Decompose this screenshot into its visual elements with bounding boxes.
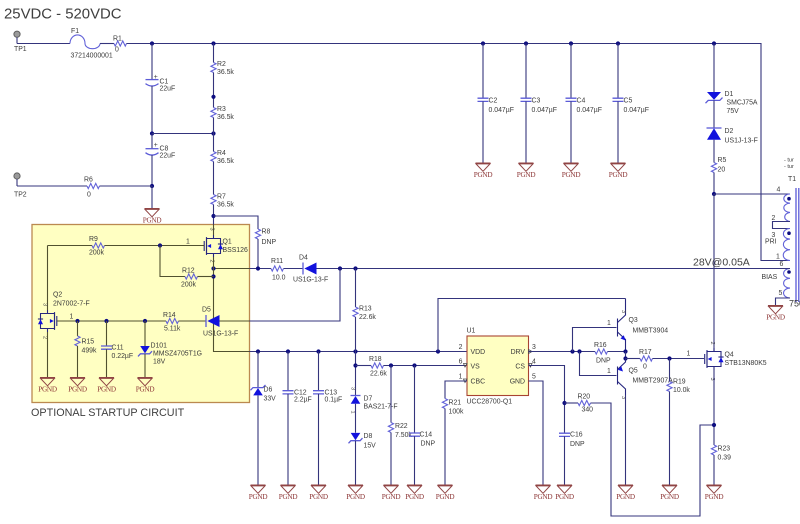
wire R5 to primary node <box>713 173 715 195</box>
capacitor C12 <box>283 352 312 486</box>
capacitor C2 <box>478 41 514 163</box>
resistor R11 <box>271 258 286 282</box>
svg-text:36.5k: 36.5k <box>217 69 234 76</box>
resistor R5 <box>711 157 726 174</box>
wire CS pin <box>529 366 565 434</box>
svg-text:0.047µF: 0.047µF <box>532 107 557 114</box>
svg-text:22.6k: 22.6k <box>359 314 376 321</box>
svg-text:UCC28700-Q1: UCC28700-Q1 <box>467 399 513 406</box>
svg-text:100k: 100k <box>449 409 464 416</box>
svg-text:20: 20 <box>718 167 726 174</box>
svg-text:BSS126: BSS126 <box>223 247 248 254</box>
wire bias line <box>250 268 272 270</box>
wire startup VDD feed <box>250 351 468 353</box>
svg-text:Q3: Q3 <box>629 317 638 324</box>
svg-text:37214000001: 37214000001 <box>71 53 113 60</box>
resistor R9 <box>48 236 205 257</box>
svg-text:R21: R21 <box>449 400 462 407</box>
ground PGND under GND pin <box>534 485 553 501</box>
wire R7 to divider node <box>213 205 215 225</box>
svg-text:TP2: TP2 <box>14 192 27 199</box>
ground PGND under C2 <box>474 163 493 179</box>
node R9-R12 tap <box>158 243 162 247</box>
node D5 return <box>338 266 342 270</box>
ground PGND under C12 <box>279 485 298 501</box>
svg-text:5.11k: 5.11k <box>164 326 181 333</box>
wire Q4 source <box>713 370 715 445</box>
ground PGND under R19 <box>660 485 679 501</box>
svg-text:R9: R9 <box>89 236 98 243</box>
svg-text:CBC: CBC <box>471 379 486 386</box>
node C13 top <box>316 349 320 353</box>
ground PGND under C14 <box>405 485 424 501</box>
svg-text:D101: D101 <box>151 343 168 350</box>
wire R8 to bias line <box>257 239 259 269</box>
diode D4 <box>293 255 328 284</box>
capacitor C13 <box>313 352 342 486</box>
svg-text:R2: R2 <box>217 61 226 68</box>
svg-text:3: 3 <box>42 303 48 306</box>
node R13 top <box>353 266 357 270</box>
node D101 top <box>143 319 147 323</box>
svg-text:C12: C12 <box>294 390 307 397</box>
svg-text:Q1: Q1 <box>223 239 232 246</box>
wire Q3 base <box>573 328 617 352</box>
wire tap to R8 <box>214 216 259 229</box>
wire D2-R5 <box>713 140 715 163</box>
wire TP2 to R6 <box>17 185 87 187</box>
ground PGND under R22 <box>382 485 401 501</box>
svg-text:C11: C11 <box>112 345 124 352</box>
node R12 right <box>211 274 215 278</box>
svg-text:Q4: Q4 <box>725 352 734 359</box>
diode D7 <box>350 387 398 433</box>
svg-text:R7: R7 <box>217 194 226 201</box>
resistor R23 <box>711 445 731 485</box>
wire node to T1 pin 4 <box>714 193 790 195</box>
node rail-C1 <box>150 41 154 45</box>
wire rail to D1 <box>713 44 715 93</box>
resistor R19 <box>667 359 691 486</box>
svg-text:2.2µF: 2.2µF <box>294 397 312 404</box>
node R2-R3 <box>211 95 215 99</box>
svg-text:R15: R15 <box>82 339 95 346</box>
wire C8 to TP2 node <box>151 155 153 186</box>
node VDD-Q3 feed <box>436 349 440 353</box>
wire GND pin <box>529 381 544 485</box>
svg-text:25VDC - 520VDC: 25VDC - 520VDC <box>4 7 122 23</box>
wire mid node to C8 <box>151 134 153 149</box>
node R3-R4 <box>211 131 215 135</box>
svg-text:R14: R14 <box>163 312 176 319</box>
node Q3 emitter <box>623 349 627 353</box>
svg-text:R17: R17 <box>639 349 652 356</box>
wire R4-R7 <box>213 162 215 195</box>
wire F1 to R1 <box>100 43 114 45</box>
svg-text:5: 5 <box>532 374 536 381</box>
svg-text:R1: R1 <box>113 36 122 43</box>
svg-text:0.1µF: 0.1µF <box>325 397 343 404</box>
svg-text:C14: C14 <box>420 432 433 439</box>
ground PGND under Q2 <box>38 378 57 394</box>
node Q4 source-R20 <box>712 423 716 427</box>
node R6 junction <box>150 184 154 188</box>
ground PGND under R15 <box>68 378 87 394</box>
svg-text:2N7002-7-F: 2N7002-7-F <box>53 301 90 308</box>
svg-text:36.5k: 36.5k <box>217 202 234 209</box>
svg-text:R4: R4 <box>217 150 226 157</box>
op-amp U1 UCC28700-Q1 <box>459 328 536 406</box>
node rail-R2 <box>211 41 215 45</box>
svg-text:US1G-13-F: US1G-13-F <box>293 277 328 284</box>
svg-text:- tur: - tur <box>784 158 794 164</box>
resistor R17 <box>626 349 705 371</box>
svg-text:R8: R8 <box>262 229 271 236</box>
resistor R18 <box>356 356 388 378</box>
diode D2 <box>707 128 758 145</box>
resistor R2 <box>211 61 235 76</box>
capacitor C16 <box>559 432 585 486</box>
svg-text:R20: R20 <box>578 394 591 401</box>
svg-text:U1: U1 <box>467 328 476 335</box>
wire D1-D2 <box>713 100 715 128</box>
resistor R7 <box>211 194 235 209</box>
node R17 left <box>623 356 627 360</box>
ground PGND under D101 <box>136 378 155 394</box>
ground PGND under R21 <box>436 485 455 501</box>
resistor R12 <box>160 246 214 289</box>
svg-text:0.047µF: 0.047µF <box>624 107 649 114</box>
wire VS line <box>384 365 468 367</box>
zener D101 <box>138 321 202 378</box>
svg-text:F1: F1 <box>71 28 79 35</box>
node primary top <box>712 192 716 196</box>
svg-text:D7: D7 <box>364 396 373 403</box>
resistor R16 <box>594 342 626 365</box>
svg-text:SMCJ75A: SMCJ75A <box>727 100 758 107</box>
svg-text:200k: 200k <box>89 250 104 257</box>
svg-text:- tur: - tur <box>784 164 794 170</box>
test point TP1 <box>14 31 27 53</box>
svg-text:MMBT3904: MMBT3904 <box>633 328 669 335</box>
svg-text:D2: D2 <box>725 128 734 135</box>
svg-text:0.39: 0.39 <box>718 455 732 462</box>
wire to PGND <box>151 186 153 209</box>
svg-text:28V@0.05A: 28V@0.05A <box>693 257 750 269</box>
svg-text:PRI: PRI <box>765 239 777 246</box>
resistor R20 <box>565 394 715 517</box>
wire mid node link <box>152 133 214 135</box>
ground PGND under C8 <box>143 209 162 225</box>
node R15 top <box>75 319 79 323</box>
svg-text:36.5k: 36.5k <box>217 158 234 165</box>
ground PGND under C16 <box>555 485 574 501</box>
resistor R4 <box>211 150 235 165</box>
transistor Q3 <box>607 299 668 352</box>
resistor R21 <box>442 381 467 485</box>
svg-text:0: 0 <box>643 364 647 371</box>
node divider tap <box>211 214 215 218</box>
node R17-R19 <box>667 356 671 360</box>
wire Q1 source vertical chain <box>214 269 250 352</box>
mosfet Q1 <box>186 225 248 269</box>
ground PGND under C11 <box>97 378 116 394</box>
svg-text:R3: R3 <box>217 106 226 113</box>
svg-text:C4: C4 <box>577 98 586 105</box>
svg-text:D1: D1 <box>725 91 734 98</box>
resistor R13 <box>353 269 377 396</box>
svg-text:0: 0 <box>115 47 119 54</box>
capacitor C14 <box>409 366 435 486</box>
svg-text:22uF: 22uF <box>160 86 176 93</box>
svg-text:22uF: 22uF <box>160 153 176 160</box>
svg-text:DRV: DRV <box>511 349 526 356</box>
ground PGND under D6 <box>249 485 268 501</box>
svg-text:2: 2 <box>459 344 463 351</box>
TVS diode D1 <box>706 91 758 115</box>
svg-text:DNP: DNP <box>596 358 611 365</box>
svg-text:R23: R23 <box>718 446 731 453</box>
svg-text:D5: D5 <box>202 307 211 314</box>
wire Q5 collector <box>625 395 627 485</box>
svg-text:18V: 18V <box>153 359 166 366</box>
svg-text:D6: D6 <box>264 387 273 394</box>
ground PGND under C5 <box>609 163 628 179</box>
mosfet Q4 <box>687 342 767 381</box>
svg-text:5: 5 <box>779 290 783 297</box>
svg-text:1: 1 <box>186 239 190 246</box>
svg-text:0.22µF: 0.22µF <box>112 353 134 360</box>
svg-text:DNP: DNP <box>421 441 436 448</box>
svg-text:US1J-13-F: US1J-13-F <box>725 138 758 145</box>
svg-text:MMSZ4705T1G: MMSZ4705T1G <box>153 351 202 358</box>
resistor R3 <box>211 106 235 121</box>
wire Q3 collector to VDD <box>438 299 626 352</box>
svg-text:R5: R5 <box>718 157 727 164</box>
ground PGND under D8 <box>346 485 365 501</box>
svg-text:6: 6 <box>780 261 784 268</box>
test point TP2 <box>14 173 27 199</box>
ground PGND under Q5 <box>616 485 635 501</box>
svg-text:D4: D4 <box>299 255 308 262</box>
node VDD-R13 <box>353 349 357 353</box>
svg-text:R18: R18 <box>369 356 382 363</box>
node Q1 source <box>211 266 215 270</box>
svg-text:0: 0 <box>87 192 91 199</box>
node rail-clamp <box>712 41 716 45</box>
resistor R14 <box>163 312 206 333</box>
svg-text:0.047µF: 0.047µF <box>577 107 602 114</box>
svg-text:R6: R6 <box>84 177 93 184</box>
node CS-R20 <box>562 401 566 405</box>
wire D5 anode riser <box>250 269 341 322</box>
svg-text:1: 1 <box>776 254 780 261</box>
wire Q2 gate line <box>57 320 166 322</box>
svg-text:3: 3 <box>350 387 356 390</box>
wire bias line inside box <box>214 268 250 270</box>
transformer T1 <box>762 176 799 306</box>
svg-text:75V: 75V <box>727 108 740 115</box>
svg-text:4: 4 <box>777 187 781 194</box>
wire rail to C1 <box>151 44 153 80</box>
svg-text:US1G-13-F: US1G-13-F <box>203 331 238 338</box>
svg-text:BAS21-7-F: BAS21-7-F <box>364 404 398 411</box>
ground PGND under C3 <box>517 163 536 179</box>
mosfet Q2 <box>38 246 90 378</box>
svg-text:Q2: Q2 <box>53 292 62 299</box>
capacitor C4 <box>566 41 602 163</box>
resistor R8 <box>255 229 276 247</box>
wire R6 to node <box>100 185 153 187</box>
svg-text:1: 1 <box>607 368 611 375</box>
svg-text:3: 3 <box>620 310 626 313</box>
svg-text:3: 3 <box>532 344 536 351</box>
node C14 top <box>412 363 416 367</box>
svg-text:T1: T1 <box>788 176 796 183</box>
svg-text:1: 1 <box>350 411 356 414</box>
svg-text:D8: D8 <box>364 433 373 440</box>
wire DRV line <box>529 351 596 353</box>
svg-text:R19: R19 <box>673 379 686 386</box>
svg-text:C5: C5 <box>624 98 633 105</box>
svg-text:R22: R22 <box>395 423 408 430</box>
svg-text:VDD: VDD <box>471 349 486 356</box>
wire primary node down to Q4 drain <box>713 194 715 352</box>
svg-text:GND: GND <box>510 379 525 386</box>
svg-text:10.0k: 10.0k <box>673 387 690 394</box>
resistor R1 <box>113 36 127 54</box>
zener D6 <box>251 352 277 486</box>
svg-text:750: 750 <box>789 299 800 309</box>
zener D8 <box>349 433 377 485</box>
resistor R6 <box>84 177 100 199</box>
node Q3 base tap <box>570 349 574 353</box>
svg-text:R16: R16 <box>594 342 607 349</box>
svg-text:MMBT2907A: MMBT2907A <box>633 378 674 385</box>
svg-text:15V: 15V <box>364 443 377 450</box>
wire R2-R3 <box>213 73 215 108</box>
svg-text:36.5k: 36.5k <box>217 114 234 121</box>
resistor R15 <box>75 321 97 378</box>
svg-text:+: + <box>154 74 158 81</box>
svg-text:TP1: TP1 <box>14 46 27 53</box>
node C1-C8 <box>150 131 154 135</box>
capacitor C3 <box>521 41 557 163</box>
node VS-R18 <box>353 363 357 367</box>
ground PGND under C4 <box>562 163 581 179</box>
wire rail to R2 <box>213 44 215 63</box>
capacitor C5 <box>613 41 649 163</box>
svg-text:3: 3 <box>209 228 215 231</box>
svg-text:OPTIONAL STARTUP CIRCUIT: OPTIONAL STARTUP CIRCUIT <box>31 407 185 419</box>
svg-text:R13: R13 <box>359 306 372 313</box>
node Q5 base tap <box>577 349 581 353</box>
ground PGND under R23 <box>705 485 724 501</box>
svg-text:C2: C2 <box>489 98 498 105</box>
svg-text:C1: C1 <box>160 79 169 86</box>
resistor R22 <box>388 366 412 486</box>
node D6 top <box>256 349 260 353</box>
svg-text:4: 4 <box>532 359 536 366</box>
optional startup circuit highlight box <box>31 225 250 420</box>
svg-text:DNP: DNP <box>570 441 585 448</box>
svg-text:499k: 499k <box>82 348 97 355</box>
svg-text:C3: C3 <box>532 98 541 105</box>
svg-text:C13: C13 <box>325 390 338 397</box>
node R8 bottom <box>256 266 260 270</box>
svg-text:C8: C8 <box>160 146 169 153</box>
wire emitter link <box>625 352 627 359</box>
svg-text:33V: 33V <box>264 396 277 403</box>
wire Q5 base <box>580 352 617 376</box>
svg-text:C16: C16 <box>570 432 583 439</box>
svg-text:1: 1 <box>459 374 463 381</box>
svg-text:1: 1 <box>687 351 691 358</box>
capacitor C8 <box>146 142 176 160</box>
fuse F1 <box>70 28 113 60</box>
node C12 top <box>286 349 290 353</box>
svg-text:BIAS: BIAS <box>762 274 778 281</box>
wire TP1 to F1 <box>17 43 70 45</box>
svg-text:Q5: Q5 <box>629 368 638 375</box>
svg-text:2: 2 <box>42 336 48 339</box>
diode D5 <box>202 307 238 338</box>
svg-text:CS: CS <box>515 364 525 371</box>
wire R3-R4 <box>213 118 215 152</box>
svg-text:22.6k: 22.6k <box>370 371 387 378</box>
svg-text:R11: R11 <box>271 258 283 265</box>
svg-text:VS: VS <box>471 364 481 371</box>
svg-text:R12: R12 <box>182 268 195 275</box>
ground PGND under T1 <box>766 306 785 322</box>
node C11 top <box>104 319 108 323</box>
svg-text:200k: 200k <box>181 282 196 289</box>
svg-text:0.047µF: 0.047µF <box>489 107 514 114</box>
svg-text:1: 1 <box>70 314 74 321</box>
svg-text:DNP: DNP <box>262 239 277 246</box>
svg-text:2: 2 <box>709 342 715 345</box>
svg-text:+: + <box>154 142 158 149</box>
wire D5 anode inside box <box>219 320 250 322</box>
transistor Q5 <box>607 359 673 400</box>
svg-text:STB13N80K5: STB13N80K5 <box>725 360 767 367</box>
wire C1 to mid node <box>151 86 153 134</box>
capacitor C11 <box>101 321 133 378</box>
wire input rail <box>127 44 791 261</box>
svg-text:6: 6 <box>459 359 463 366</box>
svg-text:10.0: 10.0 <box>272 275 286 282</box>
svg-text:1: 1 <box>607 320 611 327</box>
capacitor C1 <box>146 74 176 93</box>
node R22 top <box>389 363 393 367</box>
svg-text:340: 340 <box>582 407 594 414</box>
ground PGND under C13 <box>309 485 328 501</box>
